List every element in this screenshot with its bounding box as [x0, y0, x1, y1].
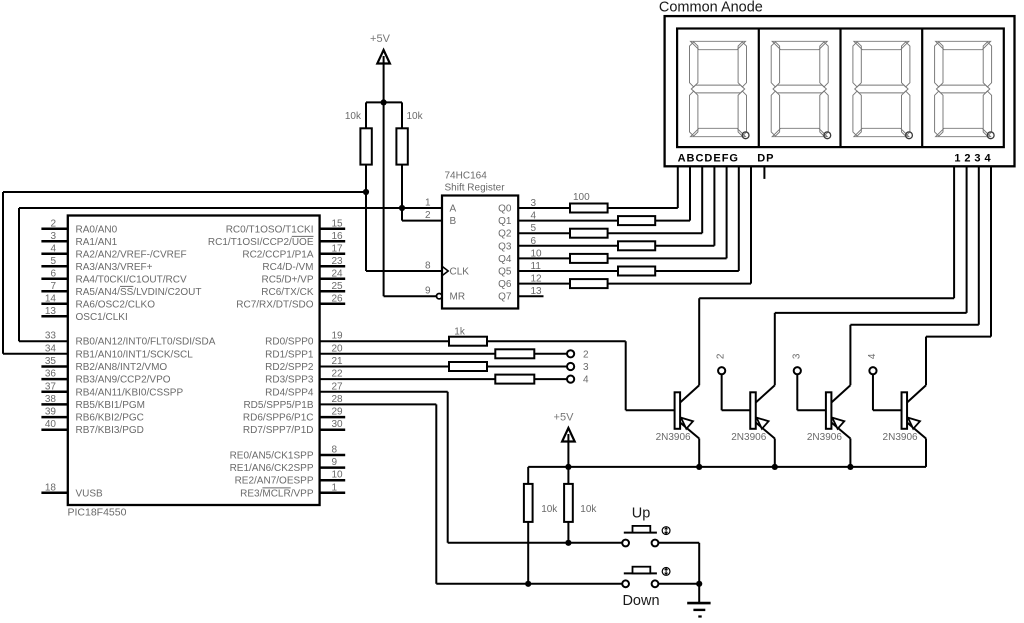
wire +5V stem down to MR	[383, 56, 385, 296]
transistor Q3 2N3906	[831, 385, 850, 402]
svg-text:CLK: CLK	[450, 267, 470, 278]
wire resistor to segment E	[608, 257, 727, 259]
pin 35 stub	[41, 365, 67, 368]
pin 13 stub	[41, 315, 67, 318]
wire segment C riser	[701, 166, 703, 233]
resistor 100ohm segment A	[570, 204, 608, 213]
pin 24 stub	[320, 278, 346, 281]
svg-text:10k: 10k	[345, 111, 362, 122]
svg-text:4: 4	[50, 243, 56, 254]
wire resistor to segment D	[655, 245, 714, 247]
pin 2 stub	[41, 228, 67, 231]
resistor 100ohm segment E	[570, 254, 608, 263]
decimal point digit 4	[987, 132, 994, 139]
svg-text:Q5: Q5	[498, 267, 512, 278]
svg-text:RB0/AN12/INT0/FLT0/SDI/SDA: RB0/AN12/INT0/FLT0/SDI/SDA	[76, 337, 216, 348]
svg-text:VUSB: VUSB	[76, 488, 104, 499]
svg-text:15: 15	[332, 218, 344, 229]
junction +5V/pullup rail	[381, 99, 387, 105]
overline SS (RA5)	[120, 285, 133, 287]
svg-text:RD2/SPP2: RD2/SPP2	[265, 362, 314, 373]
svg-text:17: 17	[332, 243, 344, 254]
pin 23 stub	[320, 265, 346, 268]
momentary symbol Up	[662, 527, 670, 535]
wire Q1 base from RD0 net	[626, 409, 675, 411]
svg-text:RB6/KBI2/PGC: RB6/KBI2/PGC	[76, 413, 144, 424]
resistor R8 10k (Down pullup)	[527, 467, 529, 484]
svg-text:4: 4	[867, 353, 878, 359]
svg-text:100: 100	[573, 192, 590, 203]
svg-text:RA0/AN0: RA0/AN0	[76, 224, 118, 235]
svg-text:MR: MR	[450, 292, 466, 303]
svg-text:RA1/AN1: RA1/AN1	[76, 237, 118, 248]
svg-text:39: 39	[45, 407, 57, 418]
7-segment digit 1	[690, 41, 747, 136]
svg-text:Up: Up	[632, 506, 651, 522]
7-segment digit 4	[935, 41, 992, 136]
svg-text:RC5/D+/VP: RC5/D+/VP	[262, 274, 314, 285]
svg-text:10k: 10k	[407, 111, 424, 122]
svg-text:RD5/SPP5/P1B: RD5/SPP5/P1B	[243, 400, 313, 411]
junction A/B tie	[399, 205, 405, 211]
svg-text:26: 26	[332, 293, 344, 304]
svg-text:RE0/AN5/CK1SPP: RE0/AN5/CK1SPP	[230, 451, 314, 462]
decimal point digit 1	[742, 132, 749, 139]
junction rail/+5V	[565, 464, 571, 470]
wire net DATA: RB0 to 74HC164 A/B	[19, 340, 68, 342]
resistor R2 10k (data pullup)	[401, 102, 403, 128]
ground	[698, 584, 700, 603]
wire MR to +5V	[384, 295, 437, 297]
wire +5V emitter rail	[528, 466, 926, 468]
pin 18 stub	[41, 492, 67, 495]
svg-text:2: 2	[583, 349, 589, 360]
svg-text:ABCDEFG: ABCDEFG	[678, 153, 739, 165]
switch Down push-button	[624, 572, 657, 574]
svg-text:38: 38	[45, 394, 57, 405]
svg-text:2N3906: 2N3906	[656, 432, 691, 443]
pin 15 stub	[320, 228, 346, 231]
svg-text:RB4/AN11/KBI0/CSSPP: RB4/AN11/KBI0/CSSPP	[76, 387, 184, 398]
resistor 100ohm segment F	[618, 267, 655, 276]
wire RD0 to 1k resistor and Q1 base	[320, 340, 449, 342]
pin 16 stub	[320, 240, 346, 243]
wire RD2 to terminal 3	[320, 366, 449, 368]
switch Up push-button	[624, 532, 657, 534]
svg-text:RC0/T1OSO/T1CKI: RC0/T1OSO/T1CKI	[226, 224, 314, 235]
svg-text:A: A	[450, 204, 457, 215]
svg-text:Shift Register: Shift Register	[445, 183, 506, 194]
junction Up row/pullup	[565, 540, 571, 546]
svg-text:2: 2	[716, 353, 727, 359]
wire segment G riser	[750, 166, 752, 283]
7-segment digit 2	[771, 41, 828, 136]
pin 39 stub	[41, 416, 67, 419]
svg-text:4: 4	[583, 375, 589, 386]
svg-text:10k: 10k	[580, 504, 597, 515]
pin 38 stub	[41, 403, 67, 406]
pin 1 stub	[320, 492, 346, 495]
node terminal 4 (digit select net)	[872, 374, 874, 410]
wire Q3 to resistor	[518, 245, 618, 247]
svg-text:+5V: +5V	[554, 412, 575, 424]
svg-text:RA6/OSC2/CLKO: RA6/OSC2/CLKO	[76, 299, 156, 310]
junction CLK/pullup	[363, 189, 369, 195]
clock edge marker	[442, 266, 448, 276]
shift register U2 74HC164 box	[442, 196, 518, 309]
node terminal 3 (digit select net)	[796, 374, 798, 410]
display digit divider 2	[839, 29, 841, 148]
svg-text:9: 9	[425, 286, 431, 297]
node terminal 3	[567, 363, 574, 370]
junction Down row/pullup	[525, 581, 531, 587]
junction rail/Q2 emitter	[772, 464, 778, 470]
svg-text:RD4/SPP4: RD4/SPP4	[265, 387, 314, 398]
svg-text:6: 6	[50, 268, 56, 279]
inversion bubble MR	[437, 294, 442, 299]
junction ground net	[696, 581, 702, 587]
svg-text:Q6: Q6	[498, 279, 512, 290]
wire Q7 stub (n.c.)	[518, 295, 543, 297]
microcontroller U1 PIC18F4550 box	[68, 216, 320, 506]
wire resistor to segment A	[608, 207, 678, 209]
svg-text:28: 28	[332, 394, 344, 405]
7-segment digit 3	[853, 41, 910, 136]
svg-text:22: 22	[332, 369, 344, 380]
svg-text:RB5/KBI1/PGM: RB5/KBI1/PGM	[76, 400, 145, 411]
wire A-B tie jog	[401, 208, 403, 221]
display digit divider 3	[921, 29, 923, 148]
junction rail/Q1 emitter	[696, 464, 702, 470]
display digit divider 1	[758, 29, 760, 148]
wire DP stub (n.c.)	[763, 166, 765, 179]
node terminal 2	[567, 350, 574, 357]
wire Q0 to resistor	[518, 207, 570, 209]
resistor R3 1k (Q1 base)	[449, 337, 487, 346]
svg-text:2N3906: 2N3906	[883, 432, 918, 443]
svg-text:74HC164: 74HC164	[445, 171, 488, 182]
display outer box	[665, 16, 1015, 166]
resistor 100ohm segment C	[570, 229, 608, 238]
svg-text:RC7/RX/DT/SDO: RC7/RX/DT/SDO	[236, 299, 313, 310]
svg-text:23: 23	[332, 256, 344, 267]
wire resistor to segment C	[608, 232, 703, 234]
wire digit 3 common anode to Q3 collector	[978, 166, 980, 324]
node terminal 2 (digit select net)	[721, 374, 723, 410]
svg-text:RC2/CCP1/P1A: RC2/CCP1/P1A	[242, 249, 313, 260]
svg-text:5: 5	[50, 256, 56, 267]
svg-text:RE1/AN6/CK2SPP: RE1/AN6/CK2SPP	[230, 463, 314, 474]
svg-text:Common Anode: Common Anode	[659, 0, 763, 16]
resistor 100ohm segment G	[570, 279, 608, 288]
svg-text:37: 37	[45, 381, 57, 392]
wire segment D riser	[713, 166, 715, 246]
svg-text:RE2/AN7/OESPP: RE2/AN7/OESPP	[235, 476, 314, 487]
wire digit 1 common anode to Q1 collector	[953, 166, 955, 298]
wire segment A riser	[677, 166, 679, 208]
svg-text:33: 33	[45, 331, 57, 342]
display inner box	[677, 29, 1004, 148]
svg-text:1: 1	[425, 198, 431, 209]
wire RD1 to terminal 2	[320, 353, 496, 355]
svg-text:1234: 1234	[954, 153, 994, 165]
svg-text:2N3906: 2N3906	[807, 432, 842, 443]
wire RD4 to Up switch	[320, 391, 448, 393]
pin 25 stub	[320, 290, 346, 293]
svg-text:RB2/AN8/INT2/VMO: RB2/AN8/INT2/VMO	[76, 362, 168, 373]
wire RD3 to terminal 4	[320, 378, 496, 380]
wire Q4 to resistor	[518, 257, 570, 259]
svg-text:16: 16	[332, 231, 344, 242]
svg-text:29: 29	[332, 407, 344, 418]
svg-text:2: 2	[425, 210, 431, 221]
pin 40 stub	[41, 428, 67, 431]
svg-text:7: 7	[50, 281, 56, 292]
svg-text:RC1/T1OSI/CCP2/UOE: RC1/T1OSI/CCP2/UOE	[208, 237, 314, 248]
svg-text:RE3/MCLR/VPP: RE3/MCLR/VPP	[240, 488, 314, 499]
svg-text:RD6/SPP6/P1C: RD6/SPP6/P1C	[243, 413, 314, 424]
svg-text:27: 27	[332, 381, 344, 392]
pin 17 stub	[320, 253, 346, 256]
svg-text:18: 18	[45, 482, 57, 493]
pin 8 stub	[320, 454, 346, 457]
wire pullup tops rail	[366, 101, 402, 103]
svg-text:RB7/KBI3/PGD: RB7/KBI3/PGD	[76, 425, 144, 436]
svg-text:8: 8	[332, 445, 338, 456]
svg-text:Q1: Q1	[498, 216, 512, 227]
svg-text:36: 36	[45, 369, 57, 380]
svg-text:21: 21	[332, 356, 344, 367]
resistor 1k (Q2 base)	[495, 349, 534, 358]
svg-text:RA5/AN4/SS/LVDIN/C2OUT: RA5/AN4/SS/LVDIN/C2OUT	[76, 287, 202, 298]
svg-text:8: 8	[425, 261, 431, 272]
svg-text:Q2: Q2	[498, 229, 512, 240]
svg-text:RA3/AN3/VREF+: RA3/AN3/VREF+	[76, 262, 153, 273]
node terminal 4	[567, 376, 574, 383]
transistor Q1 2N3906	[680, 385, 699, 402]
resistor 1k (Q3 base)	[449, 362, 487, 371]
wire Up switch to ground net	[658, 542, 699, 544]
wire Up row	[448, 542, 623, 544]
junction rail/Q3 emitter	[847, 464, 853, 470]
svg-text:Q0: Q0	[498, 204, 512, 215]
pin 14 stub	[41, 303, 67, 306]
svg-text:Q3: Q3	[498, 241, 512, 252]
svg-text:RC4/D-/VM: RC4/D-/VM	[262, 262, 313, 273]
pin 36 stub	[41, 378, 67, 381]
svg-text:3: 3	[583, 362, 589, 373]
svg-text:30: 30	[332, 419, 344, 430]
svg-text:3: 3	[791, 353, 802, 359]
svg-text:9: 9	[332, 457, 338, 468]
svg-text:13: 13	[45, 306, 57, 317]
wire net CLK: RB1 to 74HC164 CLK	[3, 353, 68, 355]
svg-text:RD3/SPP3: RD3/SPP3	[265, 375, 314, 386]
svg-text:3: 3	[50, 231, 56, 242]
svg-text:34: 34	[45, 343, 57, 354]
wire RD5 to Down switch	[320, 403, 437, 405]
resistor R9 10k (Up pullup)	[567, 467, 569, 484]
svg-text:DP: DP	[757, 153, 774, 165]
pin 9 stub	[320, 466, 346, 469]
pin 3 stub	[41, 240, 67, 243]
wire digit 4 common anode to Q4 collector	[990, 166, 992, 336]
resistor R1 10k (CLK pullup)	[365, 102, 367, 128]
decimal point digit 2	[824, 132, 831, 139]
svg-text:Q4: Q4	[498, 254, 512, 265]
svg-text:PIC18F4550: PIC18F4550	[68, 507, 127, 519]
svg-text:RA4/T0CKI/C1OUT/RCV: RA4/T0CKI/C1OUT/RCV	[76, 274, 187, 285]
wire segment F riser	[738, 166, 740, 271]
overline UOE (RC1)	[292, 235, 314, 237]
svg-text:20: 20	[332, 343, 344, 354]
pin 10 stub	[320, 479, 346, 482]
wire segment E riser	[726, 166, 728, 258]
svg-text:1k: 1k	[454, 326, 466, 337]
pin 5 stub	[41, 265, 67, 268]
wire digit 2 common anode to Q2 collector	[966, 166, 968, 313]
svg-text:35: 35	[45, 356, 57, 367]
wire Q2 to resistor	[518, 232, 570, 234]
svg-text:40: 40	[45, 419, 57, 430]
wire Down switch to ground	[658, 583, 699, 585]
wire segment B riser	[689, 166, 691, 220]
pin 4 stub	[41, 253, 67, 256]
wire Q1 to resistor	[518, 220, 618, 222]
pin 29 stub	[320, 416, 346, 419]
decimal point digit 3	[906, 132, 913, 139]
wire Q5 to resistor	[518, 270, 618, 272]
svg-text:RD7/SPP7/P1D: RD7/SPP7/P1D	[243, 425, 314, 436]
wire Q6 to resistor	[518, 283, 570, 285]
svg-text:24: 24	[332, 268, 344, 279]
svg-text:B: B	[450, 216, 457, 227]
svg-text:Down: Down	[622, 593, 659, 609]
resistor 1k (Q4 base)	[495, 375, 534, 384]
resistor 100ohm segment B	[618, 216, 655, 225]
svg-text:10k: 10k	[541, 504, 558, 515]
pin 30 stub	[320, 428, 346, 431]
wire resistor to segment G	[608, 283, 751, 285]
svg-text:1: 1	[332, 482, 338, 493]
overline MCLR (RE3)	[262, 487, 290, 489]
svg-text:+5V: +5V	[370, 33, 391, 45]
svg-text:RB1/AN10/INT1/SCK/SCL: RB1/AN10/INT1/SCK/SCL	[76, 349, 194, 360]
pin 7 stub	[41, 290, 67, 293]
svg-text:RD0/SPP0: RD0/SPP0	[265, 337, 314, 348]
transistor Q4 2N3906	[907, 385, 926, 402]
svg-text:10: 10	[332, 470, 344, 481]
svg-text:19: 19	[332, 331, 344, 342]
pin 26 stub	[320, 303, 346, 306]
wire Down row	[436, 583, 622, 585]
wire CLK into pin 8	[366, 270, 442, 272]
svg-text:RC6/TX/CK: RC6/TX/CK	[261, 287, 314, 298]
svg-text:25: 25	[332, 281, 344, 292]
svg-text:Q7: Q7	[498, 292, 512, 303]
svg-text:RD1/SPP1: RD1/SPP1	[265, 349, 314, 360]
pin 6 stub	[41, 278, 67, 281]
momentary symbol Down	[662, 568, 670, 576]
svg-text:RB3/AN9/CCP2/VPO: RB3/AN9/CCP2/VPO	[76, 375, 171, 386]
resistor 100ohm segment D	[618, 241, 655, 250]
svg-text:2: 2	[50, 218, 56, 229]
svg-text:RA2/AN2/VREF-/CVREF: RA2/AN2/VREF-/CVREF	[76, 249, 187, 260]
wire resistor to segment F	[655, 270, 739, 272]
svg-text:OSC1/CLKI: OSC1/CLKI	[76, 312, 128, 323]
svg-text:14: 14	[45, 293, 57, 304]
transistor Q2 2N3906	[756, 385, 775, 402]
wire resistor to segment B	[655, 220, 690, 222]
pin 37 stub	[41, 391, 67, 394]
svg-text:2N3906: 2N3906	[731, 432, 766, 443]
